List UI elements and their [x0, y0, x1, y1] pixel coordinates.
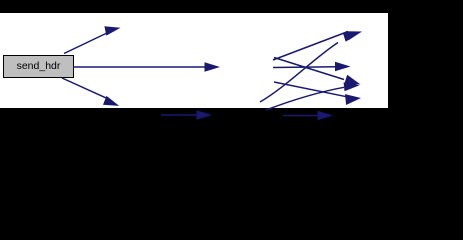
edge send_hdr to middle node: [73, 62, 220, 72]
edge mid node to top-right node (rising): [273, 31, 362, 60]
edge mid node to right node 4 (down): [274, 82, 361, 105]
edge lower node to top-right node (curved spline): [260, 33, 359, 103]
svg-text:send_hdr: send_hdr: [17, 60, 61, 72]
edge mid node to right node 3 (gentle down): [274, 58, 360, 85]
edge lower-middle horizontal arrow: [283, 111, 333, 120]
edge mid node to right node 2 (horizontal): [273, 62, 351, 71]
node send_hdr: [4, 56, 74, 78]
edge send_hdr to top node: [64, 26, 121, 53]
white graph background band: [0, 13, 388, 108]
edge send_hdr to bottom node: [62, 78, 119, 106]
edge lower-left horizontal arrow: [161, 110, 212, 120]
edge lower node to right node 3 (rising): [266, 82, 360, 110]
